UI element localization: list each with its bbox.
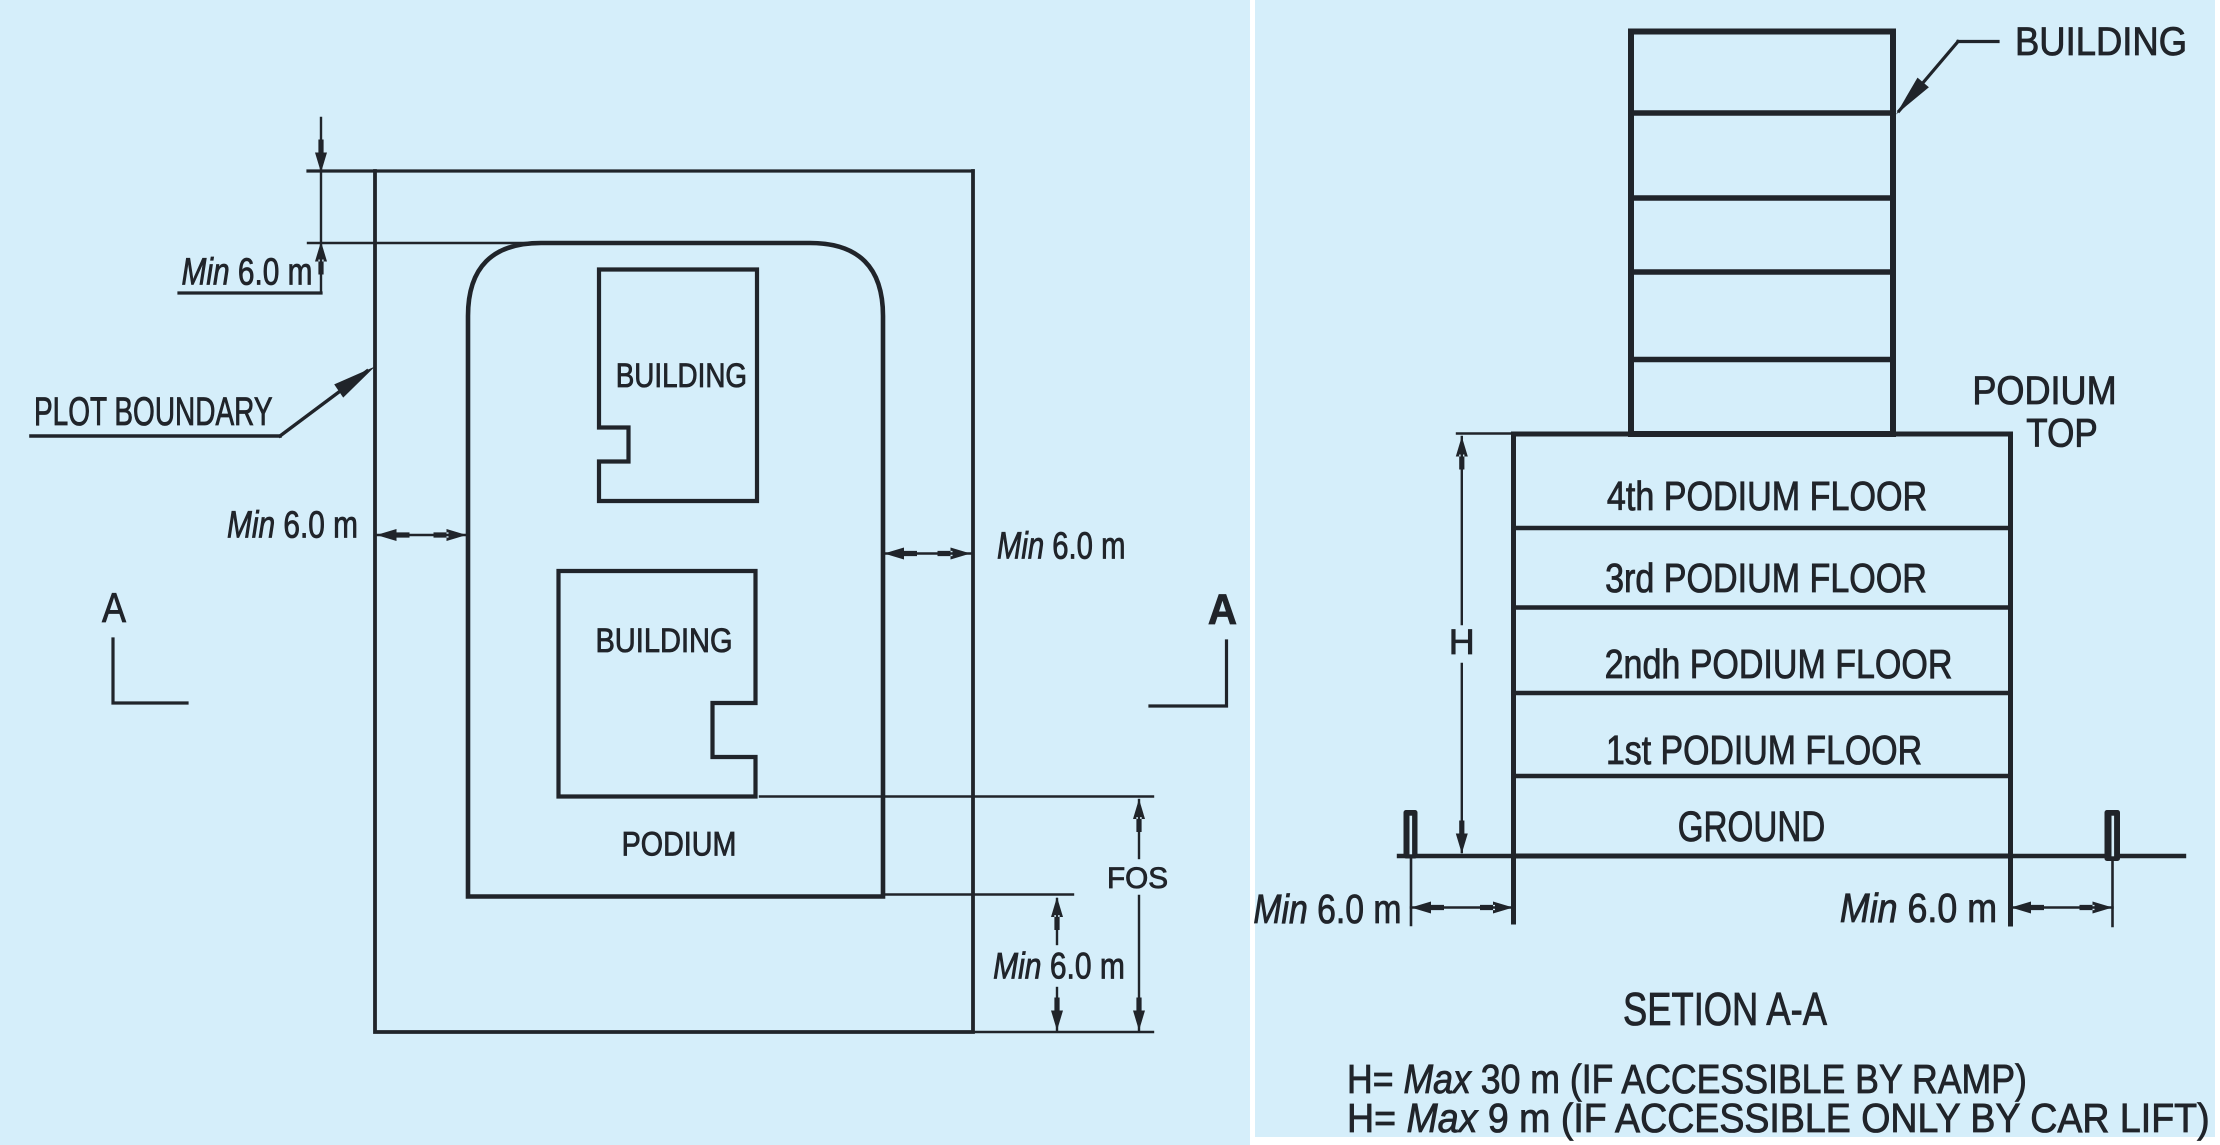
FOS dim down arrow: [1133, 998, 1145, 1031]
tower floor line 4: [1631, 357, 1893, 363]
svg-text:Min 6.0 m: Min 6.0 m: [182, 251, 313, 293]
svg-text:BUILDING: BUILDING: [595, 621, 732, 660]
white bottom-right strip: [1255, 1137, 2220, 1145]
podium floor line 1st: [1514, 774, 2011, 779]
svg-text:GROUND: GROUND: [1678, 803, 1826, 851]
section bottom-right dim left arrow: [2011, 902, 2044, 914]
podium outline (rounded top corners): [468, 243, 883, 897]
plot boundary rectangle: [375, 171, 973, 1032]
left-middle dimension line: [377, 534, 467, 536]
plan bottom Min dim shaft lower: [1056, 988, 1058, 1030]
tower outline: [1631, 32, 1893, 435]
right-middle dim right arrow: [938, 548, 971, 560]
podium bottom extension line: [886, 893, 1073, 895]
podium floor line 3rd: [1514, 605, 2011, 610]
left boundary post: [1404, 810, 1418, 859]
svg-text:H: H: [1449, 623, 1475, 662]
FOS dim shaft lower: [1138, 896, 1140, 1030]
svg-text:SETION A-A: SETION A-A: [1623, 983, 1827, 1035]
svg-text:Min 6.0 m: Min 6.0 m: [1253, 886, 1401, 932]
top-left dimension vertical line: [320, 118, 322, 293]
building 2 outline: [559, 571, 756, 797]
section marker A right: [1150, 641, 1227, 706]
svg-text:A: A: [102, 585, 127, 631]
right boundary post: [2105, 810, 2121, 861]
H dim shaft lower: [1461, 664, 1463, 852]
plot boundary leader diagonal: [280, 371, 367, 436]
left boundary post slit: [1410, 817, 1413, 853]
white right strip: [2215, 0, 2220, 1145]
svg-text:BUILDING: BUILDING: [616, 356, 747, 394]
top-left dimension label underline: [179, 291, 321, 294]
left-middle dim left arrow: [377, 529, 410, 541]
svg-text:Min 6.0 m: Min 6.0 m: [993, 946, 1125, 988]
svg-text:FOS: FOS: [1107, 862, 1168, 895]
tower floor line 3: [1631, 269, 1893, 275]
left-middle dim right arrow: [434, 529, 467, 541]
section podium right edge extension: [2008, 856, 2013, 924]
podium floor line 4th: [1514, 526, 2011, 531]
building leader arrowhead: [1896, 78, 1929, 115]
top-left dimension up arrow: [315, 242, 327, 275]
top-left dimension down arrow: [315, 140, 327, 173]
section podium left edge extension: [1511, 856, 1516, 922]
right-middle dimension line: [884, 552, 971, 554]
section bottom-left dim left arrow: [1411, 902, 1444, 914]
background right panel: [1255, 0, 2215, 1137]
svg-text:3rd PODIUM FLOOR: 3rd PODIUM FLOOR: [1605, 555, 1927, 601]
H dim shaft upper: [1461, 437, 1463, 624]
H dim up arrow: [1456, 437, 1468, 470]
plot bottom extension line: [975, 1031, 1153, 1033]
right boundary post slit: [2112, 817, 2115, 855]
podium floor line 2ndh: [1514, 691, 2011, 696]
svg-text:2ndh PODIUM FLOOR: 2ndh PODIUM FLOOR: [1605, 641, 1953, 687]
svg-text:H= Max 9 m (IF ACCESSIBLE ONLY: H= Max 9 m (IF ACCESSIBLE ONLY BY CAR LI…: [1347, 1096, 2210, 1142]
building 1 outline: [599, 270, 757, 502]
plot boundary top edge with left extension: [308, 169, 973, 172]
svg-text:4th PODIUM FLOOR: 4th PODIUM FLOOR: [1607, 473, 1927, 519]
svg-text:A: A: [1208, 585, 1237, 633]
section bottom-right dim line: [2011, 906, 2113, 908]
building leader diagonal: [1899, 42, 1958, 112]
plot boundary leader arrowhead: [334, 367, 375, 398]
svg-text:Min 6.0 m: Min 6.0 m: [227, 504, 358, 546]
svg-text:PODIUM: PODIUM: [1972, 369, 2116, 413]
section bottom-right dim right arrow: [2080, 902, 2113, 914]
podium top extension line: [308, 242, 545, 244]
H dimension top extension line: [1457, 432, 1513, 434]
white divider strip: [1250, 0, 1255, 1145]
section bottom-left dim right arrow: [1480, 902, 1513, 914]
background left panel: [0, 0, 1250, 1145]
building 2 bottom extension line: [760, 795, 1153, 797]
svg-text:Min 6.0 m: Min 6.0 m: [1840, 886, 1997, 932]
plan bottom Min dim up arrow: [1051, 897, 1063, 930]
section bottom-left dim line: [1411, 906, 1513, 908]
svg-text:PLOT BOUNDARY: PLOT BOUNDARY: [34, 390, 273, 434]
section bottom-left post extension line: [1410, 858, 1413, 925]
plan bottom Min dim shaft upper: [1056, 899, 1058, 944]
svg-text:1st PODIUM FLOOR: 1st PODIUM FLOOR: [1606, 727, 1922, 773]
plot boundary leader underline: [31, 434, 280, 438]
H dim down arrow: [1456, 821, 1468, 854]
FOS dim up arrow: [1133, 799, 1145, 832]
plan bottom Min dim down arrow: [1051, 998, 1063, 1031]
ground line: [1399, 854, 2184, 858]
podium slab outline: [1514, 434, 2011, 856]
right-middle dim left arrow: [884, 548, 917, 560]
svg-text:Min 6.0 m: Min 6.0 m: [997, 525, 1125, 568]
svg-text:TOP: TOP: [2026, 410, 2097, 455]
svg-text:PODIUM: PODIUM: [622, 825, 737, 863]
section bottom-right post extension line: [2111, 861, 2114, 926]
section marker A left: [113, 639, 187, 703]
FOS dim shaft upper: [1138, 800, 1140, 858]
svg-text:BUILDING: BUILDING: [2015, 19, 2187, 64]
tower floor line 2: [1631, 195, 1893, 201]
building leader horizontal: [1958, 40, 1998, 43]
tower floor line 1: [1631, 110, 1893, 116]
